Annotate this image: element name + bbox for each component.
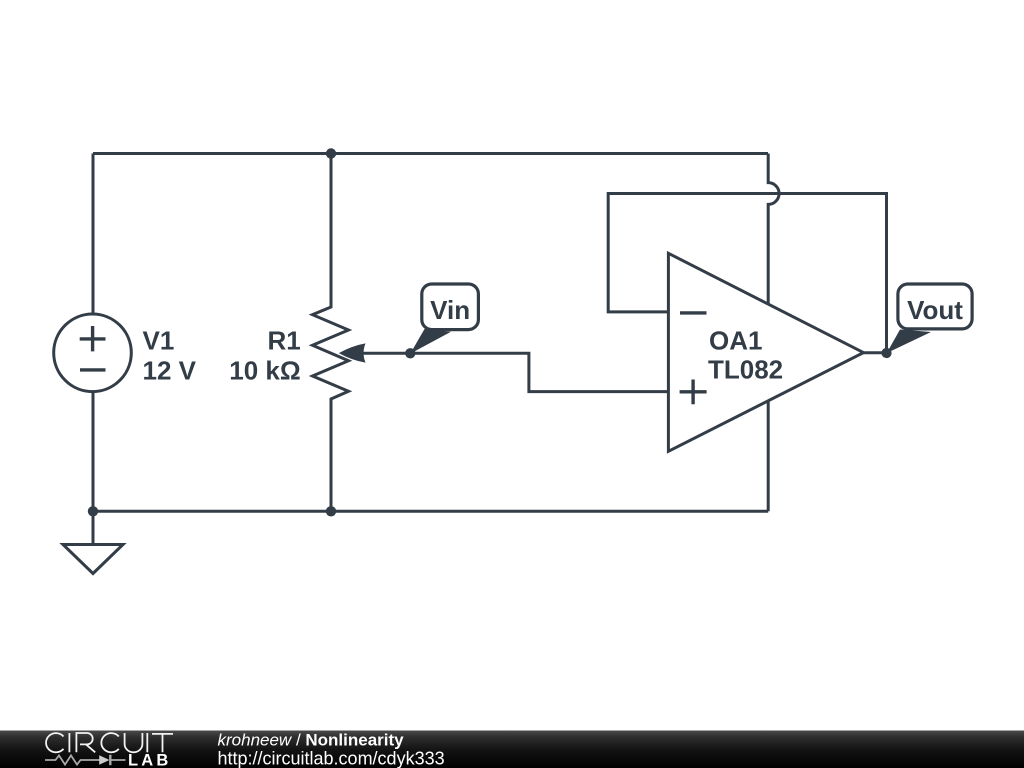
wire V1 bottom lead <box>92 391 95 512</box>
voltage source V1 <box>54 314 132 392</box>
logo resistor-diode squiggle <box>45 755 126 765</box>
Vout flag tail <box>887 330 931 354</box>
svg-text:TL082: TL082 <box>708 355 783 385</box>
wire bottom rail <box>93 510 768 513</box>
logo diode triangle <box>99 755 109 764</box>
svg-text:OA1: OA1 <box>709 325 762 355</box>
node B (wiper / Vin) <box>405 348 415 358</box>
svg-text:http://circuitlab.com/cdyk333: http://circuitlab.com/cdyk333 <box>218 748 445 768</box>
wire left rail <box>92 154 95 316</box>
node A (top rail / R1) <box>326 148 336 158</box>
op-amp non-inverting input plus sign <box>680 380 707 405</box>
V1 plus sign <box>80 326 106 351</box>
Vout flag bubble <box>898 284 972 329</box>
potentiometer R1 <box>313 154 349 512</box>
wire ground stub <box>92 511 95 544</box>
wire VS- power stub <box>767 401 770 512</box>
svg-text:LAB: LAB <box>128 752 172 768</box>
wire non-inverting input <box>410 353 668 391</box>
op-amp inverting input minus sign <box>680 311 707 314</box>
svg-text:10 kΩ: 10 kΩ <box>229 356 300 386</box>
node D (bottom rail / R1) <box>326 506 336 516</box>
Vin flag bubble <box>422 284 479 330</box>
ground <box>63 545 123 574</box>
op-amp OA1 <box>668 253 863 451</box>
Vin flag tail <box>410 329 451 354</box>
node E (output / Vout) <box>881 348 891 358</box>
wire output <box>863 351 887 354</box>
wire VS+ power stub with hop <box>768 154 779 305</box>
svg-text:V1: V1 <box>143 325 175 355</box>
svg-text:12 V: 12 V <box>143 356 197 386</box>
node C (ground) <box>88 506 98 516</box>
svg-text:Vout: Vout <box>907 295 963 325</box>
V1 minus sign <box>80 368 106 371</box>
wire top rail <box>93 152 768 155</box>
svg-text:R1: R1 <box>267 325 300 355</box>
svg-text:krohneew / Nonlinearity: krohneew / Nonlinearity <box>218 730 405 749</box>
wire wiper to node <box>360 352 410 355</box>
logo CIRCUIT text <box>46 733 173 752</box>
wire feedback loop <box>608 194 886 354</box>
R1 wiper arrow <box>339 343 366 362</box>
svg-text:Vin: Vin <box>430 295 470 325</box>
